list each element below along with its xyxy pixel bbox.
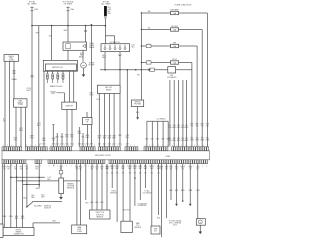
wires L2 down to MFI bbox=[15, 107, 17, 147]
wires L1 down bbox=[4, 61, 6, 147]
svg-text:YEL: YEL bbox=[181, 169, 184, 171]
svg-text:THROTTLE: THROTTLE bbox=[95, 212, 103, 214]
wire fusible link to distributor bbox=[104, 18, 106, 43]
heated oxygen sensor box bbox=[59, 178, 64, 194]
svg-text:YEL: YEL bbox=[35, 169, 38, 171]
wire condenser to ground bbox=[83, 68, 85, 74]
svg-text:MFI (MPI) CONT: MFI (MPI) CONT bbox=[95, 155, 111, 157]
svg-text:YEL: YEL bbox=[25, 167, 28, 169]
svg-text:2: 2 bbox=[184, 166, 185, 168]
svg-text:SOL: SOL bbox=[154, 230, 157, 232]
wires ignitor to MFI unit bbox=[66, 109, 68, 147]
svg-text:BLK/: BLK/ bbox=[115, 166, 119, 168]
svg-text:BLK/: BLK/ bbox=[111, 166, 115, 168]
svg-text:YEL: YEL bbox=[195, 125, 198, 127]
wire power transistor to MFI bbox=[87, 125, 89, 148]
right bottom wires bbox=[166, 164, 168, 218]
wire relay coil to ignition coil box bbox=[67, 50, 69, 60]
svg-text:1: 1 bbox=[181, 145, 182, 147]
svg-text:ORG: ORG bbox=[196, 190, 201, 192]
svg-text:RELAY: RELAY bbox=[89, 46, 95, 49]
power transistor box bbox=[86, 112, 88, 118]
svg-text:B-2: B-2 bbox=[122, 172, 124, 174]
svg-text:B+: B+ bbox=[53, 165, 55, 167]
svg-text:B-13: B-13 bbox=[52, 143, 55, 145]
svg-text:RELAY: RELAY bbox=[106, 88, 112, 91]
inline connector on oxygen wire bbox=[59, 171, 63, 174]
svg-text:1: 1 bbox=[89, 145, 90, 147]
svg-text:TAIL: TAIL bbox=[173, 42, 177, 45]
svg-text:ALL TIMES: ALL TIMES bbox=[27, 3, 37, 6]
svg-text:2: 2 bbox=[206, 166, 207, 168]
svg-text:DISTRIBUTOR: DISTRIBUTOR bbox=[109, 42, 120, 44]
svg-text:YEL: YEL bbox=[3, 169, 6, 171]
svg-text:OR START: OR START bbox=[64, 3, 74, 6]
svg-text:YEL: YEL bbox=[196, 169, 199, 171]
wire to ignition and starter bbox=[139, 164, 141, 200]
svg-text:YEL: YEL bbox=[14, 169, 17, 171]
svg-text:2: 2 bbox=[66, 166, 67, 168]
fuse row 3 TAIL bbox=[141, 45, 170, 47]
svg-text:1: 1 bbox=[68, 145, 69, 147]
stub wire x158.6 bbox=[158, 164, 160, 215]
MFI connector strip A (top pins) bbox=[2, 147, 4, 151]
svg-text:YEL: YEL bbox=[91, 169, 94, 171]
fuse row 3 drop wire bbox=[196, 46, 198, 147]
svg-text:BLK: BLK bbox=[108, 11, 111, 13]
svg-text:1: 1 bbox=[59, 145, 60, 147]
check engine lamp box bbox=[196, 219, 205, 226]
mid bottom long wire x117 bbox=[116, 164, 118, 222]
svg-text:2: 2 bbox=[57, 166, 58, 168]
wire from switch to right bbox=[32, 201, 34, 204]
svg-text:YEL: YEL bbox=[170, 169, 173, 171]
wire down to relay contact bbox=[105, 25, 107, 27]
spark plug wires bbox=[46, 71, 48, 73]
svg-text:STOP: STOP bbox=[172, 59, 178, 61]
svg-text:WHT: WHT bbox=[36, 33, 40, 35]
svg-text:IGNITION COIL: IGNITION COIL bbox=[52, 67, 63, 69]
svg-text:YEL: YEL bbox=[65, 137, 68, 139]
wire tach line bbox=[90, 25, 92, 147]
svg-text:BLU: BLU bbox=[14, 167, 17, 169]
svg-text:SENSOR: SENSOR bbox=[110, 192, 118, 194]
svg-text:POSITION: POSITION bbox=[96, 214, 104, 216]
ladder rung 3 bbox=[23, 183, 40, 185]
svg-text:1: 1 bbox=[35, 145, 36, 147]
svg-text:SOLENOID: SOLENOID bbox=[167, 77, 177, 79]
svg-text:YEL: YEL bbox=[175, 169, 178, 171]
ground bbox=[82, 74, 86, 77]
svg-text:B-13: B-13 bbox=[39, 143, 42, 145]
wire entering box from right bbox=[33, 222, 60, 224]
stub wire x83 to MFI bbox=[82, 133, 84, 147]
GPL solenoid on bus bbox=[168, 67, 176, 73]
wire jog into distributor second pin bbox=[105, 35, 114, 37]
wire drop x38.8 to MFI bbox=[38, 26, 40, 147]
stub wire x85.8 bbox=[85, 164, 87, 200]
svg-text:YEL: YEL bbox=[52, 140, 55, 142]
MFI connector strip B (bottom pins) bbox=[2, 160, 4, 164]
svg-text:GRN: GRN bbox=[36, 188, 41, 190]
svg-text:YEL: YEL bbox=[160, 169, 163, 171]
bottom small box bbox=[151, 226, 160, 234]
svg-text:CONNECTOR: CONNECTOR bbox=[13, 234, 24, 236]
svg-text:WHT: WHT bbox=[100, 167, 103, 169]
fuse row 2 RR DEF bbox=[141, 29, 170, 31]
data link connector box bbox=[72, 225, 87, 234]
wire to check engine lamp bbox=[197, 164, 199, 219]
svg-text:B-13: B-13 bbox=[56, 143, 59, 145]
svg-text:SENSOR: SENSOR bbox=[96, 216, 104, 218]
relay K1 fuel pump bbox=[63, 42, 87, 50]
svg-text:BLK: BLK bbox=[165, 167, 168, 169]
svg-text:B-13: B-13 bbox=[43, 143, 46, 145]
svg-text:YEL: YEL bbox=[25, 169, 28, 171]
svg-text:SENSOR: SENSOR bbox=[67, 188, 75, 190]
svg-text:SPARK PLUGS: SPARK PLUGS bbox=[50, 85, 63, 88]
svg-text:WHT: WHT bbox=[59, 167, 62, 169]
svg-text:WHT: WHT bbox=[128, 168, 131, 170]
svg-text:YEL: YEL bbox=[14, 140, 17, 142]
connector C113 on wire bbox=[31, 75, 34, 77]
svg-text:YEL: YEL bbox=[190, 125, 193, 127]
svg-text:B-2: B-2 bbox=[106, 172, 108, 174]
wire relay contact down bbox=[82, 50, 84, 62]
svg-text:CONN: CONN bbox=[18, 104, 24, 106]
svg-text:YEL: YEL bbox=[96, 169, 99, 171]
switch arm diagonal bbox=[26, 206, 28, 208]
wires distributor to bus bbox=[104, 52, 106, 70]
wire drop x127.3 to MFI bbox=[126, 70, 128, 147]
svg-text:GRN: GRN bbox=[189, 167, 192, 169]
svg-text:B-13: B-13 bbox=[82, 143, 85, 145]
svg-text:VEHICLE: VEHICLE bbox=[135, 102, 141, 104]
svg-text:SMALL: SMALL bbox=[12, 78, 18, 81]
wires coil box to ignitor bbox=[69, 71, 71, 102]
ladder rung 2 bbox=[17, 180, 80, 182]
throttle position sensor box bbox=[90, 210, 111, 219]
svg-text:B-13: B-13 bbox=[71, 143, 74, 145]
svg-text:TO IGNITION: TO IGNITION bbox=[137, 203, 148, 205]
mid wires to MFI x170-187 bbox=[169, 80, 171, 147]
wire x44 coil box corner to MFI bbox=[43, 71, 45, 147]
svg-text:GRN: GRN bbox=[90, 167, 93, 169]
lamp ground wire bbox=[199, 225, 201, 231]
wire x134.9 with junction bbox=[134, 164, 136, 206]
svg-text:B-13: B-13 bbox=[90, 143, 93, 145]
lamp ground bbox=[199, 232, 203, 235]
svg-text:WHT: WHT bbox=[108, 13, 111, 15]
A/C cut relay box bbox=[97, 85, 120, 93]
svg-text:UNIT: UNIT bbox=[166, 156, 172, 158]
MAP sensor box bbox=[121, 221, 132, 232]
svg-text:B-2: B-2 bbox=[134, 172, 136, 174]
svg-text:SPD SENS: SPD SENS bbox=[134, 104, 141, 106]
wire stub x53.3 to MFI bbox=[52, 125, 54, 148]
svg-text:RR DEF: RR DEF bbox=[171, 26, 179, 28]
svg-text:1: 1 bbox=[153, 145, 154, 147]
svg-text:LINK: LINK bbox=[108, 9, 111, 11]
svg-text:B-13: B-13 bbox=[78, 143, 81, 145]
svg-text:B-2: B-2 bbox=[129, 172, 131, 174]
svg-text:WHT: WHT bbox=[157, 168, 160, 170]
wires to MAP sensor bbox=[122, 164, 124, 222]
svg-text:YEL: YEL bbox=[79, 169, 82, 171]
fuse bus vertical bbox=[140, 13, 142, 70]
shield bus drops to MFI bbox=[146, 121, 148, 147]
svg-text:FUSE JUNCTION: FUSE JUNCTION bbox=[175, 5, 192, 7]
svg-text:BLK/: BLK/ bbox=[139, 166, 143, 168]
fuse row 4 drop wire bbox=[191, 63, 193, 147]
svg-text:WHT: WHT bbox=[121, 168, 124, 170]
wire below idle solenoid bbox=[137, 107, 139, 118]
svg-text:WHT: WHT bbox=[133, 168, 136, 170]
svg-text:1: 1 bbox=[20, 145, 21, 147]
ladder rung 1 bbox=[11, 176, 45, 178]
svg-text:WHT: WHT bbox=[144, 168, 147, 170]
left edge narrow box bbox=[0, 224, 3, 238]
mid bottom stub wire to A/C bbox=[111, 164, 113, 188]
svg-text:BLK/: BLK/ bbox=[128, 166, 132, 168]
inline label boxes rows 3-4 bbox=[146, 44, 151, 47]
svg-text:1: 1 bbox=[203, 145, 204, 147]
svg-text:YEL: YEL bbox=[101, 169, 104, 171]
svg-text:GRN: GRN bbox=[3, 167, 6, 169]
svg-text:TACH: TACH bbox=[78, 56, 84, 59]
svg-text:IGNITOR: IGNITOR bbox=[65, 106, 73, 108]
svg-text:B-2: B-2 bbox=[151, 172, 153, 174]
svg-text:SWITCH: SWITCH bbox=[44, 207, 51, 209]
horizontal bus y69.8 bbox=[100, 69, 192, 71]
oxygen sensor ground wire bbox=[60, 194, 62, 198]
svg-text:YEL: YEL bbox=[165, 169, 168, 171]
svg-text:WHT: WHT bbox=[139, 168, 142, 170]
wire drop x51.6 to ignition coil bbox=[51, 26, 53, 61]
svg-text:B-12: B-12 bbox=[131, 45, 134, 47]
svg-text:BLU: BLU bbox=[96, 167, 99, 169]
svg-text:WHT: WHT bbox=[106, 168, 109, 170]
wire to bottom small box bbox=[151, 164, 153, 226]
connector ticks bbox=[104, 16, 107, 18]
svg-text:BLK/: BLK/ bbox=[121, 166, 125, 168]
stub wire x57.2 to MFI bbox=[56, 133, 58, 147]
svg-text:BLK/: BLK/ bbox=[150, 166, 154, 168]
ignition coil bus connector arrow bbox=[149, 69, 152, 71]
svg-text:CONN: CONN bbox=[77, 231, 83, 233]
svg-text:FUS: FUS bbox=[108, 7, 111, 9]
svg-text:1: 1 bbox=[162, 145, 163, 147]
svg-text:1: 1 bbox=[44, 145, 45, 147]
svg-text:YEL: YEL bbox=[20, 169, 23, 171]
svg-text:B-15: B-15 bbox=[97, 99, 101, 101]
svg-text:B-13: B-13 bbox=[61, 143, 64, 145]
svg-text:B-2: B-2 bbox=[116, 172, 118, 174]
svg-text:YEL: YEL bbox=[81, 136, 84, 138]
svg-text:BLK/: BLK/ bbox=[133, 166, 137, 168]
svg-text:B-2: B-2 bbox=[111, 172, 113, 174]
resistor ticks on wire bbox=[13, 70, 16, 72]
wire long to fuel gauge bbox=[161, 164, 163, 237]
svg-text:BLK/: BLK/ bbox=[106, 166, 110, 168]
wire x39.2 through ladder bbox=[38, 164, 40, 188]
ignitor box bbox=[62, 102, 77, 109]
wires to throttle position sensor bbox=[91, 164, 93, 210]
MFI control unit body bbox=[2, 151, 210, 160]
idle-up solenoid box bbox=[132, 100, 144, 107]
svg-text:1: 1 bbox=[108, 145, 109, 147]
svg-text:YEL: YEL bbox=[60, 169, 63, 171]
svg-text:B-13: B-13 bbox=[78, 131, 81, 133]
fusible link bbox=[104, 6, 106, 16]
stub wire x62 to MFI bbox=[61, 133, 63, 147]
svg-text:WHT: WHT bbox=[41, 196, 45, 198]
svg-text:WHT: WHT bbox=[115, 168, 118, 170]
wire fuse bus down to speed sensor bbox=[140, 70, 142, 100]
svg-text:WHT: WHT bbox=[64, 30, 68, 32]
svg-text:B-2: B-2 bbox=[139, 172, 141, 174]
svg-text:BLK/: BLK/ bbox=[157, 166, 161, 168]
svg-text:BLK/YEL: BLK/YEL bbox=[123, 209, 130, 211]
svg-text:YEL: YEL bbox=[189, 169, 192, 171]
svg-text:GRN: GRN bbox=[35, 167, 38, 169]
stub wire x79.3 to MFI bbox=[78, 127, 80, 147]
svg-text:YEL: YEL bbox=[70, 137, 73, 139]
shield bus bbox=[147, 120, 168, 122]
svg-text:FRONT: FRONT bbox=[16, 229, 22, 231]
svg-text:BRN: BRN bbox=[181, 167, 184, 169]
svg-text:BLU/RED: BLU/RED bbox=[34, 205, 42, 207]
svg-text:YEL: YEL bbox=[206, 125, 209, 127]
noise condenser bbox=[81, 63, 87, 69]
stub wire to A/C cut relay bbox=[145, 164, 147, 188]
oxygen sensor wire bbox=[60, 164, 62, 178]
svg-text:BRN: BRN bbox=[160, 167, 163, 169]
svg-text:SENSOR: SENSOR bbox=[134, 227, 142, 229]
svg-text:BLU: BLU bbox=[175, 167, 178, 169]
svg-text:C-13: C-13 bbox=[47, 177, 51, 179]
svg-text:1: 1 bbox=[190, 145, 191, 147]
svg-text:BLK/: BLK/ bbox=[144, 166, 148, 168]
svg-text:1: 1 bbox=[134, 145, 135, 147]
fuse row 4 STOP bbox=[141, 62, 170, 64]
big bottom connector box bbox=[3, 228, 34, 236]
fuse row 1 PWR AMP bbox=[141, 12, 170, 14]
svg-text:2: 2 bbox=[11, 166, 12, 168]
wire fuse F2 down to relay K1 coil bbox=[67, 12, 69, 42]
ignition coil outer box bbox=[43, 60, 77, 71]
svg-text:FILTER: FILTER bbox=[89, 65, 95, 67]
svg-text:W: W bbox=[3, 121, 5, 123]
left box L2 diagnosis connector bbox=[14, 99, 28, 107]
svg-text:CHECK: CHECK bbox=[17, 102, 24, 104]
svg-text:B-14: B-14 bbox=[136, 112, 139, 114]
svg-text:PURGE: PURGE bbox=[50, 91, 56, 93]
distributor box bbox=[101, 44, 130, 52]
svg-text:ORG: ORG bbox=[9, 216, 14, 218]
wire top bus y25.6 bbox=[32, 25, 105, 27]
svg-text:WIRING: WIRING bbox=[16, 231, 23, 233]
ignition coil inner box bbox=[45, 64, 76, 71]
svg-text:YEL: YEL bbox=[7, 169, 10, 171]
svg-text:PWR AMP: PWR AMP bbox=[170, 9, 179, 12]
svg-text:CHECK: CHECK bbox=[8, 56, 15, 58]
bottom left wires from unit bbox=[1, 164, 3, 224]
wires A/C relay to MFI bbox=[98, 94, 100, 148]
svg-text:1: 1 bbox=[11, 145, 12, 147]
svg-text:WHT: WHT bbox=[150, 168, 153, 170]
svg-text:YEL: YEL bbox=[137, 75, 140, 77]
svg-text:UNIT + SENDER: UNIT + SENDER bbox=[169, 222, 182, 224]
left box L1 check connector bbox=[4, 55, 19, 62]
fuse row 2 drop wire bbox=[201, 30, 203, 147]
inline connector label on bus bbox=[150, 68, 155, 71]
svg-text:B-13: B-13 bbox=[66, 143, 69, 145]
svg-text:WHT: WHT bbox=[110, 168, 113, 170]
fuse F2 bbox=[67, 7, 69, 13]
svg-text:YEL: YEL bbox=[201, 125, 204, 127]
svg-text:1: 1 bbox=[117, 145, 118, 147]
svg-text:B-2: B-2 bbox=[144, 172, 146, 174]
svg-text:B-2: B-2 bbox=[158, 172, 160, 174]
svg-text:C-5 SHIELD: C-5 SHIELD bbox=[156, 118, 166, 120]
svg-text:2: 2 bbox=[193, 166, 194, 168]
svg-text:B-13: B-13 bbox=[86, 143, 89, 145]
wires to data link connector bbox=[76, 164, 78, 225]
fuse row 1 drop wire bbox=[206, 13, 208, 147]
wire fuse F1 to MFI unit pin bbox=[31, 12, 33, 147]
svg-text:2: 2 bbox=[88, 166, 89, 168]
fuse F1 bbox=[31, 7, 33, 13]
svg-text:(B-9): (B-9) bbox=[173, 224, 177, 226]
svg-text:ALL TIMES: ALL TIMES bbox=[101, 3, 111, 6]
